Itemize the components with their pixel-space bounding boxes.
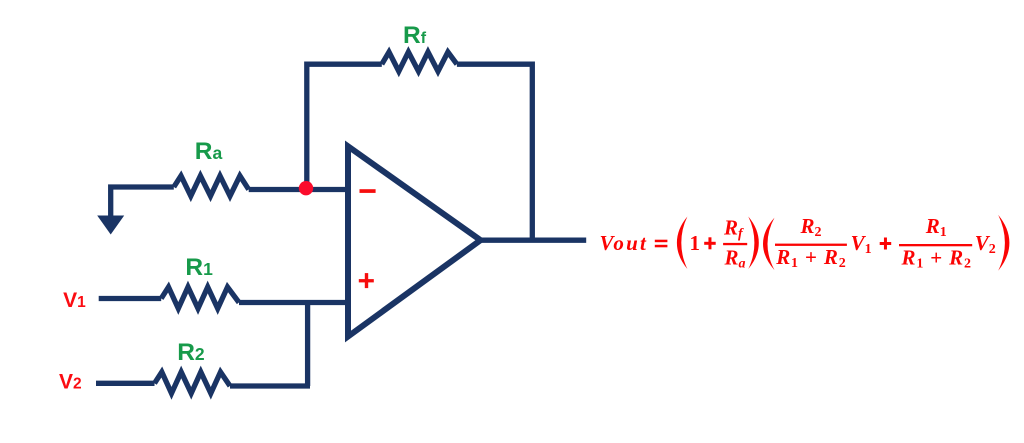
- svg-text:V2: V2: [59, 370, 82, 393]
- svg-text:V1: V1: [63, 289, 86, 312]
- svg-text:1: 1: [690, 231, 701, 255]
- svg-text:R2: R2: [177, 339, 205, 366]
- svg-text:R1: R1: [925, 214, 947, 240]
- svg-text:Ra: Ra: [195, 138, 223, 165]
- svg-text:V1: V1: [851, 231, 872, 257]
- svg-text:R2: R2: [800, 214, 822, 240]
- svg-text:R1: R1: [185, 254, 213, 281]
- svg-text:R1 + R2: R1 + R2: [901, 245, 972, 271]
- svg-text:V2: V2: [975, 231, 996, 257]
- svg-text:Ra: Ra: [724, 246, 746, 272]
- svg-text:Vout: Vout: [600, 231, 649, 255]
- svg-text:Rf: Rf: [403, 22, 427, 49]
- svg-text:R1 + R2: R1 + R2: [775, 245, 846, 271]
- svg-text:Rf: Rf: [723, 216, 744, 242]
